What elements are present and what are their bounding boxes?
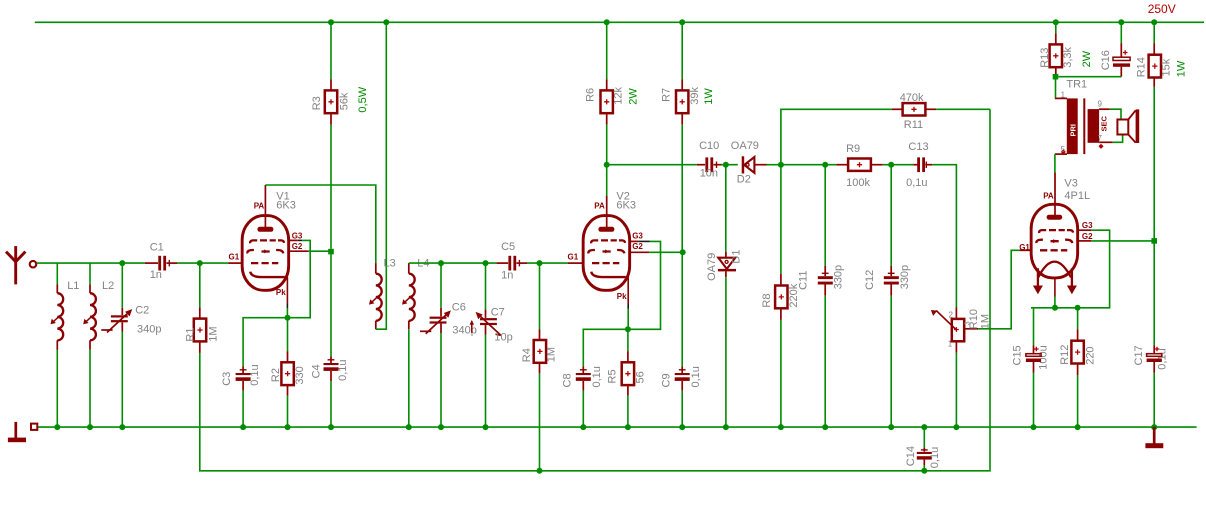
- R9 right pin: [871, 164, 882, 166]
- R8 top pin: [780, 274, 782, 286]
- svg-text:C11: C11: [798, 271, 810, 290]
- svg-text:PA: PA: [1043, 191, 1054, 200]
- R2 bottom pin: [287, 385, 289, 396]
- wire R10 wiper to V3 G1: [978, 250, 1019, 328]
- svg-text:R10: R10: [968, 309, 980, 329]
- V2 anode pin: [606, 196, 608, 228]
- C8 top pin: [582, 366, 584, 373]
- wire detector node down to R8: [780, 165, 782, 274]
- R4 bottom pin: [539, 362, 541, 373]
- junction D2/R8/R11: [778, 162, 784, 168]
- R4 top pin: [539, 329, 541, 340]
- svg-text:R9: R9: [846, 143, 860, 155]
- svg-text:C2: C2: [135, 304, 149, 316]
- svg-text:C9: C9: [661, 373, 673, 387]
- svg-text:1: 1: [1061, 90, 1066, 99]
- svg-text:340p: 340p: [137, 323, 161, 335]
- junction line/C7: [483, 260, 489, 266]
- wire detector node to R9: [781, 164, 836, 166]
- svg-text:G3: G3: [1082, 221, 1093, 230]
- svg-text:PA: PA: [254, 201, 265, 210]
- R10 wiper pin 3 lead: [964, 328, 978, 330]
- L4 top pin: [408, 263, 410, 274]
- svg-text:C1: C1: [150, 242, 164, 254]
- V3 filament arrows: [1033, 268, 1077, 294]
- svg-text:6K3: 6K3: [616, 199, 636, 211]
- R1 bottom pin: [199, 341, 201, 353]
- wire R7 to V2 G2 node: [681, 125, 683, 253]
- junction C8-ground: [580, 424, 586, 430]
- junction V2 cathode node: [625, 326, 631, 332]
- wire ground rail down to C14: [923, 427, 925, 448]
- svg-text:R8: R8: [761, 294, 773, 308]
- svg-text:PRI: PRI: [1069, 124, 1078, 137]
- svg-text:V3: V3: [1064, 178, 1077, 190]
- V1 G2 pin: [289, 250, 308, 252]
- wire G2 node down to C4: [330, 254, 332, 356]
- svg-text:1n: 1n: [501, 270, 513, 282]
- svg-text:R14: R14: [1135, 57, 1147, 77]
- wire B+ 250V top rail: [35, 21, 1204, 23]
- svg-text:6K3: 6K3: [276, 199, 296, 211]
- inductor L4: [402, 274, 415, 321]
- ground earth symbol left: [8, 422, 37, 442]
- junction R10-ground: [953, 424, 959, 430]
- svg-text:R5: R5: [606, 369, 618, 383]
- wire R5 to ground rail: [627, 396, 629, 427]
- R12 bottom pin: [1077, 363, 1079, 375]
- junction C12-ground: [888, 424, 894, 430]
- svg-text:0,1u: 0,1u: [906, 177, 927, 189]
- svg-text:R6: R6: [584, 88, 596, 102]
- L2 bottom pin: [89, 340, 91, 349]
- junction V2 G2 node: [680, 249, 686, 255]
- V3 G1 pin: [1020, 249, 1031, 251]
- capacitor C4: [324, 360, 339, 371]
- C3 top pin: [242, 366, 244, 373]
- C6 top pin: [440, 308, 442, 317]
- svg-text:2W: 2W: [1081, 50, 1093, 67]
- junction R5-ground: [625, 424, 631, 430]
- R3 top pin: [330, 79, 332, 90]
- L1 top pin: [56, 285, 58, 294]
- L1 bottom pin: [56, 340, 58, 349]
- wire C3 to ground rail: [242, 391, 244, 428]
- R12 top pin: [1077, 329, 1079, 341]
- V2 G1 pin: [568, 262, 583, 264]
- wire R3 to V1 G2 node: [330, 125, 332, 249]
- svg-text:0,1u: 0,1u: [591, 366, 603, 387]
- V3 anode pin: [1054, 173, 1056, 216]
- C12 top pin: [890, 266, 892, 276]
- wire V3 G2 to R14/C17: [1091, 240, 1154, 242]
- C14 bottom pin: [923, 460, 925, 465]
- C4 bottom pin: [330, 371, 332, 381]
- junction V1 cathode node: [285, 315, 291, 321]
- svg-text:1M: 1M: [207, 326, 219, 341]
- junction C4-ground: [328, 424, 334, 430]
- svg-text:L2: L2: [102, 280, 114, 292]
- junction C9-ground: [679, 424, 685, 430]
- junction R9/C12/C13: [888, 162, 894, 168]
- junction V1 G2 node: [328, 249, 334, 255]
- resistor R12: [1071, 341, 1083, 364]
- capacitor C5: [497, 256, 527, 271]
- svg-text:R12: R12: [1059, 345, 1071, 365]
- wire V3 filament to bias node: [1054, 297, 1056, 308]
- wire AVC bus from R1 bottom to R11 right: [200, 109, 990, 471]
- wire down to C7: [485, 263, 487, 309]
- capacitor C3: [236, 370, 251, 381]
- resistor R4: [534, 340, 546, 363]
- svg-text:G3: G3: [292, 231, 303, 240]
- V2 G3 pin: [630, 240, 639, 242]
- svg-text:C7: C7: [491, 306, 505, 318]
- V1 internals: [247, 227, 284, 277]
- wire L3 bottom to B+ rail: [376, 22, 387, 329]
- svg-text:R4: R4: [521, 348, 533, 362]
- svg-text:C13: C13: [908, 141, 928, 153]
- svg-text:G1: G1: [229, 253, 240, 262]
- svg-text:9: 9: [1098, 100, 1103, 109]
- svg-text:100k: 100k: [846, 177, 870, 189]
- svg-text:L1: L1: [67, 280, 79, 292]
- svg-text:TR1: TR1: [1066, 79, 1087, 91]
- svg-text:330p: 330p: [899, 265, 911, 289]
- wire rail down to R6: [606, 22, 608, 79]
- junction L2-ground: [87, 424, 93, 430]
- V1 G3 pin dark end: [298, 239, 303, 241]
- wire C17 to ground rail: [1153, 373, 1155, 428]
- R14 top pin: [1153, 44, 1155, 55]
- junction C15-ground: [1031, 424, 1037, 430]
- wire R13 node down to TR1 pin1: [1055, 80, 1057, 99]
- svg-text:56k: 56k: [338, 92, 350, 110]
- R7 bottom pin: [681, 113, 683, 124]
- wire V1 G2 to R3/C4 node: [308, 250, 330, 252]
- wire C12 to ground rail: [890, 296, 892, 427]
- wire rail down to R14: [1153, 22, 1155, 43]
- wire junction down to D1: [725, 165, 727, 252]
- R9 left pin: [836, 164, 847, 166]
- junction C14-AVC: [921, 468, 927, 474]
- wire rail down to R7: [681, 22, 683, 79]
- svg-text:470k: 470k: [900, 92, 924, 104]
- wire rail down to R3: [330, 22, 332, 79]
- R13 bottom pin: [1055, 67, 1057, 77]
- junction L1-ground: [54, 424, 60, 430]
- C7 bottom pin: [485, 325, 487, 334]
- C15 bottom pin: [1033, 362, 1035, 373]
- svg-text:D1: D1: [731, 250, 743, 264]
- R5 top pin: [627, 351, 629, 363]
- wire L2 to ground rail: [89, 350, 91, 428]
- wire V3 G3 to filament node: [1031, 230, 1110, 308]
- wire C9 to ground rail: [681, 391, 683, 428]
- junction line/C6: [438, 260, 444, 266]
- junction rail/R14: [1151, 19, 1157, 25]
- wire down to C12: [890, 165, 892, 266]
- tube V1 6K3 outline: [242, 216, 289, 291]
- C7 top pin: [485, 309, 487, 318]
- svg-text:SEC: SEC: [1100, 115, 1109, 131]
- R8 bottom pin: [780, 308, 782, 320]
- wire L4 to ground rail: [408, 329, 410, 427]
- svg-text:R7: R7: [660, 88, 672, 102]
- tube V2 6K3 outline: [583, 216, 630, 291]
- svg-text:OA79: OA79: [731, 140, 759, 152]
- potentiometer R10: [931, 310, 964, 341]
- wire C10 to D2: [721, 164, 738, 166]
- wire V2 cathode to bias node: [627, 309, 629, 330]
- junction L4-ground: [406, 424, 412, 430]
- V1 G3 pin: [289, 239, 298, 241]
- junction V3 filament node: [1052, 305, 1058, 311]
- svg-text:C8: C8: [561, 373, 573, 387]
- capacitor C16: [1113, 50, 1130, 67]
- wire antenna to C1: [37, 262, 145, 264]
- wire rail down to R13: [1055, 22, 1057, 33]
- svg-text:4P1L: 4P1L: [1064, 190, 1090, 202]
- capacitor C11: [818, 273, 833, 284]
- svg-text:G2: G2: [292, 242, 303, 251]
- svg-text:L3: L3: [384, 258, 396, 270]
- junction C10/D1/D2: [723, 162, 729, 168]
- speaker LS1: [1117, 109, 1139, 143]
- junction rail/R13: [1053, 19, 1059, 25]
- wire filament node down to R12: [1077, 308, 1079, 329]
- diode D2 OA79: [742, 156, 767, 173]
- wire C5 to V2 G1: [527, 262, 568, 264]
- svg-text:10p: 10p: [494, 331, 512, 343]
- svg-text:10n: 10n: [700, 167, 718, 179]
- svg-text:G1: G1: [1019, 243, 1030, 252]
- V3 internals: [1036, 215, 1073, 278]
- svg-text:39k: 39k: [689, 86, 701, 104]
- wire cathode node to C3: [243, 318, 287, 367]
- wire ground bottom rail: [37, 426, 1196, 428]
- svg-text:0,1u: 0,1u: [337, 359, 349, 380]
- junction C11-ground: [822, 424, 828, 430]
- wire V2 G2 node down to C9: [681, 252, 683, 366]
- resistor R9: [848, 159, 871, 171]
- resistor R13: [1050, 44, 1062, 67]
- capacitor C10: [697, 157, 721, 172]
- wire filament node to C15: [1033, 308, 1035, 345]
- wire L4 top line to C5: [409, 262, 497, 264]
- junction C6-ground: [438, 424, 444, 430]
- V1 G1 pin: [228, 262, 242, 264]
- resistor R5: [622, 362, 634, 385]
- V2 G3 pin dark end: [638, 240, 650, 242]
- V2 cathode pin: [627, 277, 629, 304]
- svg-text:PA: PA: [594, 201, 605, 210]
- R6 bottom pin: [606, 113, 608, 124]
- R7 top pin: [681, 79, 683, 90]
- ground earth symbol right: [1145, 427, 1163, 448]
- R14 bottom pin: [1153, 77, 1155, 87]
- wire C15 to ground rail: [1033, 373, 1035, 428]
- svg-text:R13: R13: [1039, 48, 1051, 68]
- svg-text:G3: G3: [632, 231, 643, 240]
- L3 bottom pin: [375, 321, 377, 330]
- svg-text:1: 1: [948, 339, 953, 348]
- wire C2 to ground rail: [121, 332, 123, 428]
- svg-text:2W: 2W: [628, 88, 640, 105]
- wire L1 to ground rail: [56, 350, 58, 428]
- wire down to C2: [121, 263, 123, 308]
- svg-text:R3: R3: [311, 96, 323, 110]
- svg-text:250V: 250V: [1148, 2, 1176, 16]
- wire V1 G3 to cathode: [290, 240, 310, 317]
- capacitor C9: [675, 370, 690, 381]
- wire D2 to R8/R11 node: [767, 164, 781, 166]
- svg-text:C12: C12: [864, 270, 876, 290]
- svg-text:R1: R1: [185, 328, 197, 342]
- svg-text:1M: 1M: [980, 314, 992, 329]
- capacitor C7 trimmer: [476, 312, 501, 335]
- svg-text:1W: 1W: [1176, 60, 1188, 77]
- junction filament/R12: [1075, 305, 1081, 311]
- svg-text:G2: G2: [632, 242, 643, 251]
- svg-text:D2: D2: [737, 173, 751, 185]
- C15 top pin: [1033, 345, 1035, 354]
- svg-text:340p: 340p: [452, 325, 476, 337]
- junction rail/R7: [679, 19, 685, 25]
- wire C13 to volume pot R10: [932, 165, 956, 308]
- C12 bottom pin: [890, 285, 892, 296]
- svg-text:0,1u: 0,1u: [249, 364, 261, 385]
- wire TR1 pin9 to speaker: [1110, 109, 1121, 120]
- wire D1 to ground rail: [725, 277, 727, 427]
- wire rail down to C16: [1120, 22, 1122, 43]
- wire V3 G2 node down to C17: [1153, 241, 1155, 345]
- C2 bottom pin: [121, 322, 123, 331]
- junction rail/R6: [604, 19, 610, 25]
- wire down to C6: [440, 263, 442, 308]
- svg-text:100u: 100u: [1037, 345, 1049, 369]
- wire cathode node down to R2: [287, 318, 289, 351]
- resistor R11: [903, 103, 926, 115]
- junction rail/R3: [328, 19, 334, 25]
- wire V2 G2 to R7/C9 node: [649, 251, 682, 253]
- R10 pin 2 lead: [955, 308, 957, 319]
- wire V2 anode node to C10: [607, 164, 697, 166]
- wire speaker to TR1 pin7: [1113, 135, 1123, 143]
- wire R8 to ground rail: [780, 320, 782, 427]
- svg-text:Pk: Pk: [276, 288, 286, 297]
- svg-text:330p: 330p: [833, 265, 845, 289]
- junction C7-ground: [483, 424, 489, 430]
- wire cathode node down to R5: [627, 329, 629, 351]
- C2 top pin: [121, 308, 123, 315]
- junction D1-ground: [723, 424, 729, 430]
- svg-text:C16: C16: [1100, 50, 1112, 70]
- C8 bottom pin: [582, 381, 584, 391]
- svg-text:G2: G2: [1082, 232, 1093, 241]
- C4 top pin: [330, 356, 332, 363]
- svg-text:0,1u: 0,1u: [929, 447, 941, 468]
- junction ground/C14: [921, 424, 927, 430]
- capacitor C2 trimmer: [101, 309, 132, 332]
- junction antenna line / C2: [119, 260, 125, 266]
- svg-text:7: 7: [1098, 134, 1103, 143]
- junction C1/R1: [197, 260, 203, 266]
- C9 top pin: [681, 366, 683, 373]
- R2 top pin: [287, 351, 289, 363]
- wire R2 to ground rail: [287, 396, 289, 427]
- wire C14 to AVC bus: [923, 465, 925, 471]
- junction R13/C16/TR1: [1053, 74, 1059, 80]
- wire R10 pin1 to ground rail: [955, 353, 957, 427]
- C17 top pin: [1153, 345, 1155, 354]
- svg-text:3,3k: 3,3k: [1062, 47, 1074, 68]
- C14 top pin: [923, 448, 925, 452]
- wire C7 to ground rail: [485, 335, 487, 428]
- wire TR1 pin5 to V3 anode: [1054, 154, 1056, 172]
- transformer TR1: [1055, 98, 1113, 154]
- svg-text:12k: 12k: [613, 86, 625, 104]
- R5 bottom pin: [627, 385, 629, 396]
- svg-text:1M: 1M: [546, 347, 558, 362]
- capacitor C17: [1147, 347, 1162, 362]
- svg-text:C4: C4: [310, 364, 322, 378]
- capacitor C14: [917, 450, 932, 460]
- wire junction down to R4: [539, 263, 541, 329]
- C17 bottom pin: [1153, 362, 1155, 373]
- antenna ANT1: [6, 246, 36, 284]
- C6 bottom pin: [440, 324, 442, 333]
- wire antenna line down to L2: [89, 263, 91, 284]
- junction R2-ground: [285, 424, 291, 430]
- svg-text:C15: C15: [1011, 345, 1023, 365]
- svg-text:C17: C17: [1133, 345, 1145, 365]
- junction rail/C16: [1118, 19, 1124, 25]
- wire C6 to ground rail: [440, 333, 442, 427]
- resistor R1: [194, 319, 206, 342]
- resistor R14: [1149, 55, 1161, 78]
- L3 top pin: [375, 263, 377, 274]
- resistor R6: [601, 90, 613, 113]
- capacitor C15: [1026, 347, 1041, 362]
- junction V3 G2 node: [1151, 238, 1157, 244]
- inductor L1: [51, 293, 64, 340]
- svg-text:1n: 1n: [150, 269, 162, 281]
- resistor R7: [676, 90, 688, 113]
- svg-text:1W: 1W: [703, 88, 715, 105]
- wire detector node up to R11: [781, 109, 892, 164]
- wire R4 to AVC bus: [539, 373, 541, 470]
- C11 bottom pin: [824, 285, 826, 296]
- svg-text:R11: R11: [904, 119, 923, 131]
- svg-text:330: 330: [294, 366, 306, 384]
- tube V3 4P1L outline: [1031, 204, 1078, 278]
- svg-text:G1: G1: [568, 253, 579, 262]
- wire C1 to V1 G1: [177, 262, 228, 264]
- C9 bottom pin: [681, 381, 683, 391]
- resistor R3: [325, 90, 337, 113]
- wire antenna line down to L1: [56, 263, 58, 284]
- R11 right pin: [925, 108, 936, 110]
- svg-text:C3: C3: [221, 372, 233, 386]
- capacitor C6 trimmer: [420, 310, 451, 333]
- V3 G3 pin: [1079, 229, 1092, 231]
- wire V2 cathode node to C8: [583, 329, 628, 366]
- svg-text:2: 2: [949, 311, 954, 320]
- svg-text:Pk: Pk: [617, 292, 627, 301]
- V1 cathode pin: [286, 277, 288, 303]
- R11 left pin: [892, 108, 903, 110]
